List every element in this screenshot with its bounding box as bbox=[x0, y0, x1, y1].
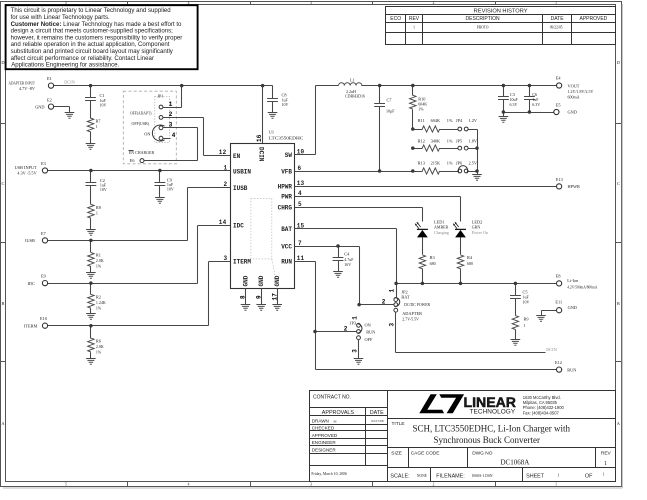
svg-text:JP3: JP3 bbox=[350, 320, 356, 325]
svg-text:GND: GND bbox=[568, 110, 577, 115]
svg-text:E2: E2 bbox=[47, 98, 52, 103]
svg-text:215K: 215K bbox=[431, 160, 441, 165]
svg-text:DWG NO: DWG NO bbox=[472, 451, 493, 457]
svg-text:GND: GND bbox=[243, 275, 250, 286]
svg-text:1: 1 bbox=[352, 316, 359, 320]
svg-text:L1: L1 bbox=[350, 77, 355, 82]
svg-text:IDC: IDC bbox=[27, 281, 35, 286]
svg-text:M: M bbox=[334, 419, 337, 423]
svg-text:SCH, LTC3550EDHC, Li-Ion Charg: SCH, LTC3550EDHC, Li-Ion Charger with bbox=[413, 424, 571, 434]
svg-text:ON: ON bbox=[144, 131, 150, 136]
svg-text:E11: E11 bbox=[555, 300, 562, 305]
svg-text:2: 2 bbox=[169, 111, 173, 118]
svg-text:10V: 10V bbox=[100, 187, 107, 192]
svg-text:2: 2 bbox=[344, 325, 348, 332]
svg-text:7: 7 bbox=[298, 240, 302, 247]
svg-text:Charging: Charging bbox=[434, 230, 449, 235]
svg-text:REV: REV bbox=[601, 451, 612, 457]
svg-text:OF: OF bbox=[585, 473, 593, 479]
svg-text:CONTRACT NO.: CONTRACT NO. bbox=[313, 395, 351, 401]
svg-text:IUSB: IUSB bbox=[25, 238, 35, 243]
svg-text:SCALE:: SCALE: bbox=[390, 473, 409, 479]
svg-text:1: 1 bbox=[603, 473, 605, 477]
svg-text:R11: R11 bbox=[418, 118, 425, 123]
svg-text:GND: GND bbox=[258, 275, 265, 286]
svg-text:6: 6 bbox=[298, 165, 302, 172]
svg-text:3: 3 bbox=[310, 1, 312, 5]
svg-text:R10: R10 bbox=[418, 96, 425, 101]
svg-text:SHEET: SHEET bbox=[526, 473, 545, 479]
svg-text:APPROVED: APPROVED bbox=[312, 433, 338, 438]
svg-text:5: 5 bbox=[298, 201, 302, 208]
svg-text:1%: 1% bbox=[96, 306, 102, 311]
svg-text:4: 4 bbox=[188, 482, 190, 486]
svg-text:JP5: JP5 bbox=[456, 138, 462, 143]
svg-text:TECHNOLOGY: TECHNOLOGY bbox=[470, 409, 516, 416]
svg-text:1.2V: 1.2V bbox=[469, 118, 478, 123]
svg-text:Power On: Power On bbox=[472, 230, 488, 235]
svg-text:3: 3 bbox=[310, 482, 312, 486]
svg-text:14: 14 bbox=[219, 219, 227, 226]
svg-text:1: 1 bbox=[96, 210, 98, 215]
svg-text:1: 1 bbox=[558, 473, 560, 477]
svg-text:APPROVALS: APPROVALS bbox=[322, 410, 355, 416]
svg-text:2: 2 bbox=[433, 1, 435, 5]
svg-text:1%: 1% bbox=[96, 264, 102, 269]
svg-text:ITERM: ITERM bbox=[233, 259, 251, 266]
svg-text:1.2V/1.8V/2.5V: 1.2V/1.8V/2.5V bbox=[568, 89, 594, 94]
svg-text:ECO: ECO bbox=[390, 16, 401, 22]
svg-text:USB INPUT: USB INPUT bbox=[15, 165, 37, 170]
svg-text:2.7V-5.5V: 2.7V-5.5V bbox=[402, 316, 419, 321]
svg-text:4.7V -8V: 4.7V -8V bbox=[19, 86, 36, 91]
svg-text:PWR: PWR bbox=[281, 193, 292, 200]
svg-text:16V: 16V bbox=[344, 262, 351, 267]
svg-text:1: 1 bbox=[555, 482, 557, 486]
svg-text:12: 12 bbox=[219, 149, 227, 156]
svg-text:1: 1 bbox=[224, 164, 228, 171]
svg-text:DATE: DATE bbox=[551, 16, 565, 22]
svg-text:6.3V: 6.3V bbox=[532, 102, 540, 107]
svg-text:C: C bbox=[617, 181, 620, 186]
svg-text:2.0K: 2.0K bbox=[96, 258, 104, 263]
svg-text:R9: R9 bbox=[524, 316, 529, 321]
svg-text:SW: SW bbox=[285, 152, 293, 159]
svg-text:GND: GND bbox=[568, 305, 577, 310]
svg-text:E7: E7 bbox=[41, 231, 47, 236]
svg-text:4.7uF: 4.7uF bbox=[344, 257, 354, 262]
svg-text:Applications Engineering for a: Applications Engineering for assistance. bbox=[11, 62, 119, 69]
svg-text:1%: 1% bbox=[447, 138, 453, 143]
svg-text:REVISION HISTORY: REVISION HISTORY bbox=[474, 9, 528, 15]
svg-text:R3: R3 bbox=[430, 255, 435, 260]
svg-text:D: D bbox=[617, 60, 620, 65]
svg-text:3: 3 bbox=[352, 349, 359, 353]
svg-text:RUN: RUN bbox=[567, 367, 576, 372]
svg-text:4.2V/500mA/800mA: 4.2V/500mA/800mA bbox=[567, 284, 597, 289]
svg-text:AMBER: AMBER bbox=[434, 225, 449, 230]
svg-text:1068A-1.DSN: 1068A-1.DSN bbox=[472, 474, 493, 478]
svg-text:680: 680 bbox=[467, 261, 473, 266]
svg-text:CHRG: CHRG bbox=[278, 204, 293, 211]
svg-text:R12: R12 bbox=[418, 138, 425, 143]
svg-text:GND: GND bbox=[35, 104, 44, 109]
svg-text:R6: R6 bbox=[96, 338, 102, 343]
svg-text:E10: E10 bbox=[40, 316, 47, 321]
svg-text:1%: 1% bbox=[418, 106, 424, 111]
svg-text:CAGE CODE: CAGE CODE bbox=[411, 451, 440, 457]
svg-text:10µF: 10µF bbox=[386, 109, 395, 114]
svg-text:16: 16 bbox=[256, 134, 263, 142]
svg-text:JP1: JP1 bbox=[157, 94, 163, 99]
svg-text:10V: 10V bbox=[282, 102, 289, 107]
svg-text:E13: E13 bbox=[556, 177, 563, 182]
svg-text:DATE: DATE bbox=[370, 410, 384, 416]
svg-text:5: 5 bbox=[65, 482, 67, 486]
svg-text:E6: E6 bbox=[130, 158, 136, 163]
svg-text:HPWR: HPWR bbox=[278, 184, 293, 191]
svg-text:EN: EN bbox=[233, 153, 241, 160]
svg-text:IDC: IDC bbox=[233, 223, 244, 230]
svg-text:600mA: 600mA bbox=[568, 95, 580, 100]
svg-text:D: D bbox=[1, 60, 4, 65]
svg-text:680: 680 bbox=[430, 261, 436, 266]
svg-text:3: 3 bbox=[224, 255, 228, 262]
svg-text:USBIN: USBIN bbox=[233, 169, 251, 176]
svg-text:1%: 1% bbox=[447, 160, 453, 165]
svg-text:1: 1 bbox=[96, 124, 98, 129]
svg-text:R2: R2 bbox=[96, 295, 101, 300]
svg-text:APPROVED: APPROVED bbox=[580, 16, 608, 22]
svg-text:RUN: RUN bbox=[366, 329, 375, 334]
svg-text:VOUT: VOUT bbox=[568, 83, 580, 88]
svg-text:C: C bbox=[2, 181, 5, 186]
svg-text:1: 1 bbox=[555, 1, 557, 5]
svg-text:604K: 604K bbox=[431, 118, 441, 123]
svg-text:E3: E3 bbox=[41, 161, 46, 166]
svg-text:DCIN: DCIN bbox=[546, 347, 557, 352]
svg-text:2.5V: 2.5V bbox=[469, 160, 478, 165]
svg-text:ON: ON bbox=[365, 323, 371, 328]
svg-text:IUSB: IUSB bbox=[233, 185, 248, 192]
svg-text:GND: GND bbox=[274, 275, 281, 286]
svg-text:R7: R7 bbox=[96, 119, 102, 124]
svg-text:SIZE: SIZE bbox=[391, 451, 402, 457]
svg-text:1.8V: 1.8V bbox=[469, 138, 478, 143]
svg-text:FILENAME:: FILENAME: bbox=[436, 473, 464, 479]
svg-text:BAT: BAT bbox=[281, 226, 292, 233]
svg-text:10V: 10V bbox=[167, 187, 174, 192]
svg-text:REV: REV bbox=[409, 16, 420, 22]
svg-text:DCIN: DCIN bbox=[64, 79, 75, 84]
svg-text:DCIN: DCIN bbox=[258, 147, 265, 162]
svg-text:VCC: VCC bbox=[281, 243, 292, 250]
svg-text:1.24K: 1.24K bbox=[96, 300, 106, 305]
svg-text:2.0K: 2.0K bbox=[96, 344, 104, 349]
svg-text:10V: 10V bbox=[100, 102, 107, 107]
svg-text:1: 1 bbox=[604, 461, 607, 467]
svg-text:3: 3 bbox=[169, 122, 173, 129]
svg-text:3: 3 bbox=[388, 323, 395, 327]
svg-text:1: 1 bbox=[413, 26, 415, 30]
svg-text:Synchronous Buck Converter: Synchronous Buck Converter bbox=[433, 435, 539, 445]
svg-text:OFF: OFF bbox=[365, 337, 373, 342]
svg-text:DC/DC POWER: DC/DC POWER bbox=[404, 302, 430, 307]
svg-text:340K: 340K bbox=[431, 138, 441, 143]
svg-text:JP4: JP4 bbox=[456, 118, 463, 123]
svg-text:R13: R13 bbox=[418, 160, 425, 165]
svg-text:JP6: JP6 bbox=[456, 160, 463, 165]
svg-text:E12: E12 bbox=[555, 360, 562, 365]
svg-text:09/22/05: 09/22/05 bbox=[550, 26, 563, 30]
svg-text:DESCRIPTION: DESCRIPTION bbox=[466, 16, 501, 22]
svg-text:Fax: (408)434-0507: Fax: (408)434-0507 bbox=[523, 410, 560, 415]
svg-text:E1: E1 bbox=[47, 76, 52, 81]
svg-text:TITLE: TITLE bbox=[392, 421, 405, 427]
svg-text:1%: 1% bbox=[96, 349, 102, 354]
svg-text:NONE: NONE bbox=[417, 474, 428, 478]
svg-text:HPWR: HPWR bbox=[568, 184, 581, 189]
svg-text:C7: C7 bbox=[387, 98, 393, 103]
svg-text:E5: E5 bbox=[556, 102, 561, 107]
svg-text:GRN: GRN bbox=[472, 225, 481, 230]
svg-text:1: 1 bbox=[169, 101, 173, 108]
svg-text:B: B bbox=[617, 301, 620, 306]
svg-text:Li-Ion: Li-Ion bbox=[567, 278, 579, 283]
svg-text:OFF(ADAPT): OFF(ADAPT) bbox=[130, 111, 152, 116]
svg-text:CDRH3D16: CDRH3D16 bbox=[345, 93, 365, 98]
svg-text:ADAPTER INPUT: ADAPTER INPUT bbox=[9, 80, 36, 85]
svg-text:RUN: RUN bbox=[281, 259, 292, 266]
svg-text:4.3V -5.5V: 4.3V -5.5V bbox=[17, 171, 37, 176]
svg-text:4: 4 bbox=[298, 190, 302, 197]
svg-text:R4: R4 bbox=[467, 255, 473, 260]
svg-text:CHECKED: CHECKED bbox=[312, 426, 335, 431]
svg-text:DRAWN: DRAWN bbox=[312, 418, 329, 423]
svg-text:VFB: VFB bbox=[281, 169, 292, 176]
svg-text:R8: R8 bbox=[96, 205, 101, 210]
svg-text:ENGINEER: ENGINEER bbox=[312, 440, 337, 445]
svg-text:DC1068A: DC1068A bbox=[501, 458, 530, 466]
svg-text:E9: E9 bbox=[41, 274, 46, 279]
svg-text:2: 2 bbox=[382, 299, 386, 306]
svg-text:R1: R1 bbox=[96, 253, 101, 258]
svg-text:E4: E4 bbox=[556, 76, 562, 81]
svg-text:2: 2 bbox=[433, 482, 435, 486]
svg-text:LTC3550EDHC: LTC3550EDHC bbox=[269, 135, 304, 140]
svg-text:02/17/06: 02/17/06 bbox=[372, 419, 384, 423]
svg-text:6.3V: 6.3V bbox=[510, 102, 518, 107]
svg-text:E8: E8 bbox=[556, 273, 561, 278]
svg-text:B: B bbox=[2, 301, 5, 306]
svg-text:OFF(USB): OFF(USB) bbox=[132, 121, 150, 126]
svg-text:2: 2 bbox=[224, 181, 228, 188]
svg-text:U1: U1 bbox=[269, 129, 274, 134]
svg-text:1%: 1% bbox=[447, 118, 453, 123]
svg-text:1: 1 bbox=[524, 323, 526, 328]
svg-text:ITERM: ITERM bbox=[24, 323, 38, 328]
svg-text:C4: C4 bbox=[344, 251, 350, 256]
svg-text:DESIGNER: DESIGNER bbox=[312, 447, 337, 452]
svg-text:10V: 10V bbox=[523, 299, 530, 304]
svg-text:1: 1 bbox=[388, 289, 395, 293]
svg-text:4: 4 bbox=[172, 132, 176, 139]
svg-text:BAT: BAT bbox=[401, 294, 409, 299]
svg-text:PROTO: PROTO bbox=[477, 26, 489, 30]
